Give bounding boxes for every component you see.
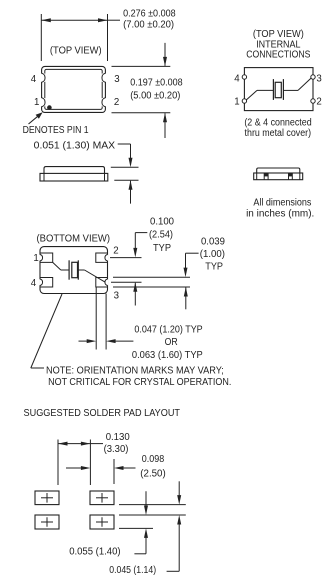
svg-text:All dimensions: All dimensions: [253, 198, 311, 209]
svg-text:4: 4: [234, 74, 240, 85]
end view right castellation: [288, 173, 290, 180]
svg-text:(2.50): (2.50): [140, 469, 165, 480]
dim 0.130 line: [58, 443, 90, 445]
note leader: [31, 294, 62, 368]
solder pad 2: [90, 491, 114, 505]
spl row2 bottom ext: [119, 527, 153, 529]
svg-text:1: 1: [234, 96, 239, 107]
svg-text:(5.00 ±0.20): (5.00 ±0.20): [130, 90, 180, 101]
svg-text:0.051 (1.30) MAX: 0.051 (1.30) MAX: [34, 141, 116, 152]
dim 0.045 top arrow: [178, 481, 180, 496]
side view lid: [44, 167, 105, 174]
dim 0.197 top extension line: [112, 65, 171, 67]
crystal symbol Y1: [272, 79, 274, 100]
svg-text:NOTE: ORIENTATION MARKS MAY V: NOTE: ORIENTATION MARKS MAY VARY;: [46, 365, 224, 376]
solder pad 3: [35, 515, 59, 529]
svg-text:TYP: TYP: [153, 243, 171, 254]
svg-text:(TOP VIEW): (TOP VIEW): [253, 29, 304, 40]
dim 0.098 right arrow: [114, 466, 124, 470]
bv pin 3 pad: [96, 278, 108, 288]
svg-text:2: 2: [114, 97, 119, 108]
svg-text:0.045 (1.14): 0.045 (1.14): [109, 565, 156, 576]
svg-text:(1.00): (1.00): [200, 249, 225, 260]
svg-text:(BOTTOM VIEW): (BOTTOM VIEW): [37, 233, 111, 244]
side view right end cap: [104, 173, 106, 181]
svg-text:DENOTES PIN 1: DENOTES PIN 1: [23, 125, 89, 136]
internal connections box: [244, 68, 313, 111]
pin 3 notch: [102, 74, 107, 82]
orientation mark ext line left: [95, 287, 97, 350]
svg-text:3: 3: [114, 291, 119, 302]
svg-text:0.063 (1.60) TYP: 0.063 (1.60) TYP: [132, 350, 203, 361]
package outline top view - inner: [45, 69, 102, 109]
svg-text:(2.54): (2.54): [149, 230, 173, 241]
dim 0.051 leader: [118, 143, 131, 145]
svg-text:in inches (mm).: in inches (mm).: [246, 208, 314, 219]
spl ext line b: [89, 440, 91, 486]
pin 4 terminal: [242, 75, 246, 79]
svg-text:(3.30): (3.30): [104, 444, 129, 455]
dim 0.098 left arrow: [66, 467, 82, 469]
end view right cap: [299, 173, 301, 180]
svg-text:4: 4: [31, 74, 37, 85]
dim 0.100 bottom arrow: [134, 283, 136, 306]
svg-text:OR: OR: [165, 337, 178, 348]
svg-text:0.098: 0.098: [142, 454, 164, 465]
spl ext line a: [57, 440, 59, 486]
svg-text:1: 1: [34, 97, 39, 108]
solder pad 1: [35, 491, 59, 505]
end view base: [254, 173, 303, 180]
denotes pin 1 leader arrow: [29, 114, 41, 124]
svg-text:1: 1: [33, 253, 38, 264]
svg-text:0.100: 0.100: [150, 216, 175, 227]
dim 0.039 pad3 top ext: [113, 276, 190, 278]
wire crystal to pin3: [283, 89, 298, 91]
dim 0.055 bottom arrow: [144, 528, 148, 538]
svg-text:0.039: 0.039: [201, 236, 225, 247]
svg-text:thru metal cover): thru metal cover): [245, 128, 312, 139]
svg-text:NOT CRITICAL FOR CRYSTAL OPERA: NOT CRITICAL FOR CRYSTAL OPERATION.: [48, 377, 231, 388]
dim 0.055 top arrow: [145, 491, 147, 506]
svg-text:4: 4: [31, 278, 37, 289]
bv wire crystal to pin3: [78, 269, 84, 271]
spl row1 bottom ext: [119, 504, 186, 506]
dim 0.045 bottom arrow: [177, 515, 181, 525]
svg-text:3: 3: [316, 74, 321, 85]
dim 0.051 bottom arrow: [130, 181, 132, 204]
dim 0.197 bottom extension line: [112, 112, 171, 114]
dim 0.276 left extension line: [40, 14, 42, 61]
svg-text:0.130: 0.130: [106, 432, 131, 443]
orientation mark ext line right: [105, 294, 107, 350]
pin 1 terminal: [242, 99, 246, 103]
pin 2 terminal: [311, 99, 315, 103]
pin 3 terminal: [311, 75, 315, 79]
dim 0.276 right extension line: [107, 14, 109, 61]
dim 0.100 pad3 centerline ext: [111, 281, 142, 283]
dim 0.051 top extension line: [111, 166, 139, 168]
end view left castellation: [263, 173, 265, 180]
svg-text:(7.00 ±0.20): (7.00 ±0.20): [123, 19, 174, 30]
svg-text:(2 & 4 connected: (2 & 4 connected: [244, 117, 311, 128]
svg-text:0.197 ±0.008: 0.197 ±0.008: [130, 78, 183, 89]
dim 0.100 pad2 centerline ext: [110, 257, 142, 259]
end view left cap: [256, 173, 258, 180]
wire pin1 to crystal: [246, 90, 257, 100]
svg-text:2: 2: [113, 245, 118, 256]
bv pin 4 pad: [40, 278, 53, 288]
svg-text:3: 3: [114, 74, 119, 85]
svg-text:2: 2: [316, 96, 321, 107]
bv pin 1 pad: [40, 253, 53, 262]
dim 0.047 left arrow: [79, 340, 89, 342]
bottom view outline: [40, 247, 108, 294]
package outline top view - outer: [42, 66, 106, 112]
svg-text:CONNECTIONS: CONNECTIONS: [246, 49, 311, 60]
dim 0.047 right arrow: [106, 339, 116, 343]
dim 0.197 top arrow: [164, 43, 166, 66]
spl ext line c: [113, 459, 115, 484]
bv crystal symbol: [68, 260, 70, 279]
dim 0.039 bottom arrow: [185, 288, 187, 310]
dim 0.039 pad3 bottom ext: [113, 286, 190, 288]
pin 1 notch: [41, 98, 46, 106]
svg-text:(TOP VIEW): (TOP VIEW): [50, 45, 102, 56]
dim 0.039 leader+top arrow: [186, 252, 199, 254]
svg-text:SUGGESTED SOLDER PAD LAYOUT: SUGGESTED SOLDER PAD LAYOUT: [24, 408, 181, 419]
dim 0.051 bottom extension line: [114, 179, 138, 181]
svg-text:TYP: TYP: [205, 261, 223, 272]
svg-text:0.055 (1.40): 0.055 (1.40): [69, 547, 120, 558]
pin 4 notch: [41, 74, 46, 82]
bv wire pin1 to crystal: [53, 262, 61, 270]
dim 0.276 dimension line: [41, 19, 107, 21]
svg-text:0.047 (1.20) TYP: 0.047 (1.20) TYP: [134, 325, 202, 336]
end view lid: [257, 168, 300, 173]
svg-text:0.276 ±0.008: 0.276 ±0.008: [123, 9, 176, 20]
dim 0.100 leader+top arrow: [135, 232, 147, 234]
side view left end cap: [43, 173, 45, 181]
bv pin 2 pad: [96, 253, 108, 262]
solder pad 4: [90, 515, 114, 529]
spl row2 top ext: [119, 514, 186, 516]
dim 0.197 bottom arrow: [164, 113, 166, 138]
pin 2 notch: [102, 98, 107, 106]
pin 1 index dot: [47, 105, 52, 110]
side view base: [40, 173, 108, 181]
